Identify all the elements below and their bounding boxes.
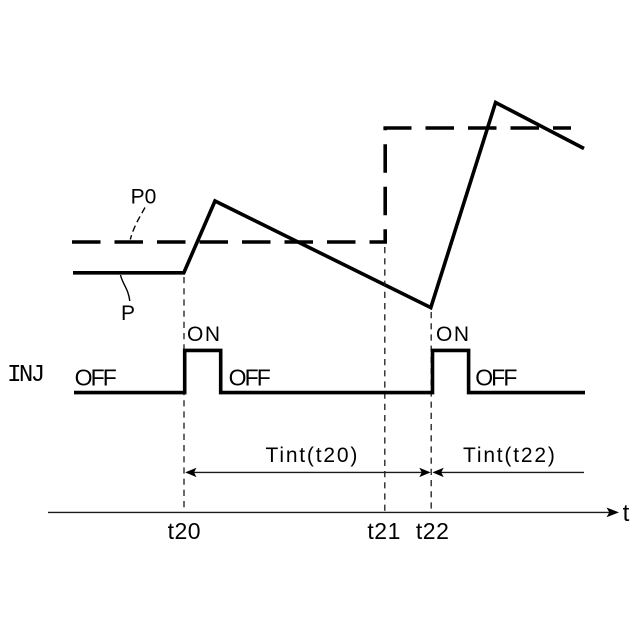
svg-text:t22: t22 bbox=[416, 518, 449, 544]
time axis bbox=[48, 511, 612, 513]
svg-text:t21: t21 bbox=[367, 518, 400, 544]
P solid pressure curve bbox=[73, 103, 584, 308]
svg-text:OFF: OFF bbox=[75, 364, 117, 390]
Tint(t20) left arrowhead bbox=[185, 468, 196, 477]
t20 vertical dashed guide line bbox=[183, 277, 185, 511]
P0 dashed target pressure line with step at t21 bbox=[72, 128, 571, 242]
svg-text:Tint(t22): Tint(t22) bbox=[463, 444, 557, 467]
svg-text:INJ: INJ bbox=[7, 362, 43, 389]
P leader line bbox=[121, 275, 130, 301]
t21 vertical dashed guide line bbox=[384, 247, 386, 511]
INJ waveform with two ON pulses bbox=[74, 350, 585, 392]
t22 vertical dashed guide line bbox=[430, 312, 432, 511]
P0 leader line (dashed) bbox=[130, 208, 145, 240]
Tint(t20) right arrowhead bbox=[419, 468, 430, 477]
svg-text:OFF: OFF bbox=[475, 364, 517, 390]
svg-text:ON: ON bbox=[436, 323, 471, 346]
time axis arrowhead bbox=[607, 508, 620, 518]
svg-text:P0: P0 bbox=[131, 186, 157, 209]
svg-text:P: P bbox=[121, 302, 135, 325]
Tint(t22) left arrowhead bbox=[432, 468, 443, 477]
svg-text:t: t bbox=[623, 500, 630, 527]
svg-text:Tint(t20): Tint(t20) bbox=[266, 444, 360, 467]
svg-text:ON: ON bbox=[187, 323, 222, 346]
Tint(t22) dimension line bbox=[434, 471, 584, 473]
Tint(t20) dimension line bbox=[187, 471, 429, 473]
svg-text:t20: t20 bbox=[168, 518, 201, 544]
svg-text:OFF: OFF bbox=[229, 364, 271, 390]
